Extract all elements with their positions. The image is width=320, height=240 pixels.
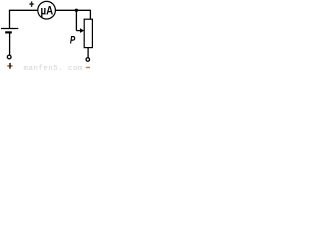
ammeter U1: circle body	[38, 1, 56, 19]
wire: wiper drop from junction	[75, 10, 77, 30]
label: + polarity at bottom-left terminal (dark vertical)	[9, 63, 11, 69]
label: + polarity of battery on top rail (dark vertical)	[31, 1, 33, 7]
svg-text:P: P	[70, 35, 76, 47]
watermark: orange dash	[86, 67, 90, 69]
terminal: bottom-right open circle	[86, 58, 90, 62]
potentiometer P: wiper arrowhead	[80, 28, 84, 33]
wire: left vertical from top rail to battery positive plate	[9, 10, 11, 28]
junction: wiper branch node on top rail	[75, 9, 78, 12]
wire: left vertical from battery negative plate to bottom-left terminal	[9, 33, 11, 55]
wire: right drop from top rail corner to potentiometer top	[89, 10, 91, 19]
terminal: bottom-left open circle	[7, 55, 11, 59]
wire: from potentiometer bottom to bottom-right terminal	[87, 48, 89, 58]
label: + polarity of battery on top rail (orange horizontal)	[29, 3, 34, 5]
wire: top rail right segment from ammeter to right corner	[55, 9, 91, 11]
wire: top rail left segment to ammeter	[9, 9, 38, 11]
battery cell positive plate (long thin)	[1, 28, 18, 30]
label: + polarity at bottom-left terminal (orange horizontal)	[7, 65, 12, 67]
potentiometer P: resistor body rectangle	[84, 19, 92, 47]
svg-text:manfen5. com: manfen5. com	[24, 65, 83, 72]
svg-text:µA: µA	[41, 3, 54, 17]
battery cell negative plate (short thick)	[5, 31, 12, 33]
potentiometer P: wiper arrow shaft	[76, 30, 80, 32]
label: + polarity of battery on top rail (dark crossing)	[30, 3, 33, 5]
